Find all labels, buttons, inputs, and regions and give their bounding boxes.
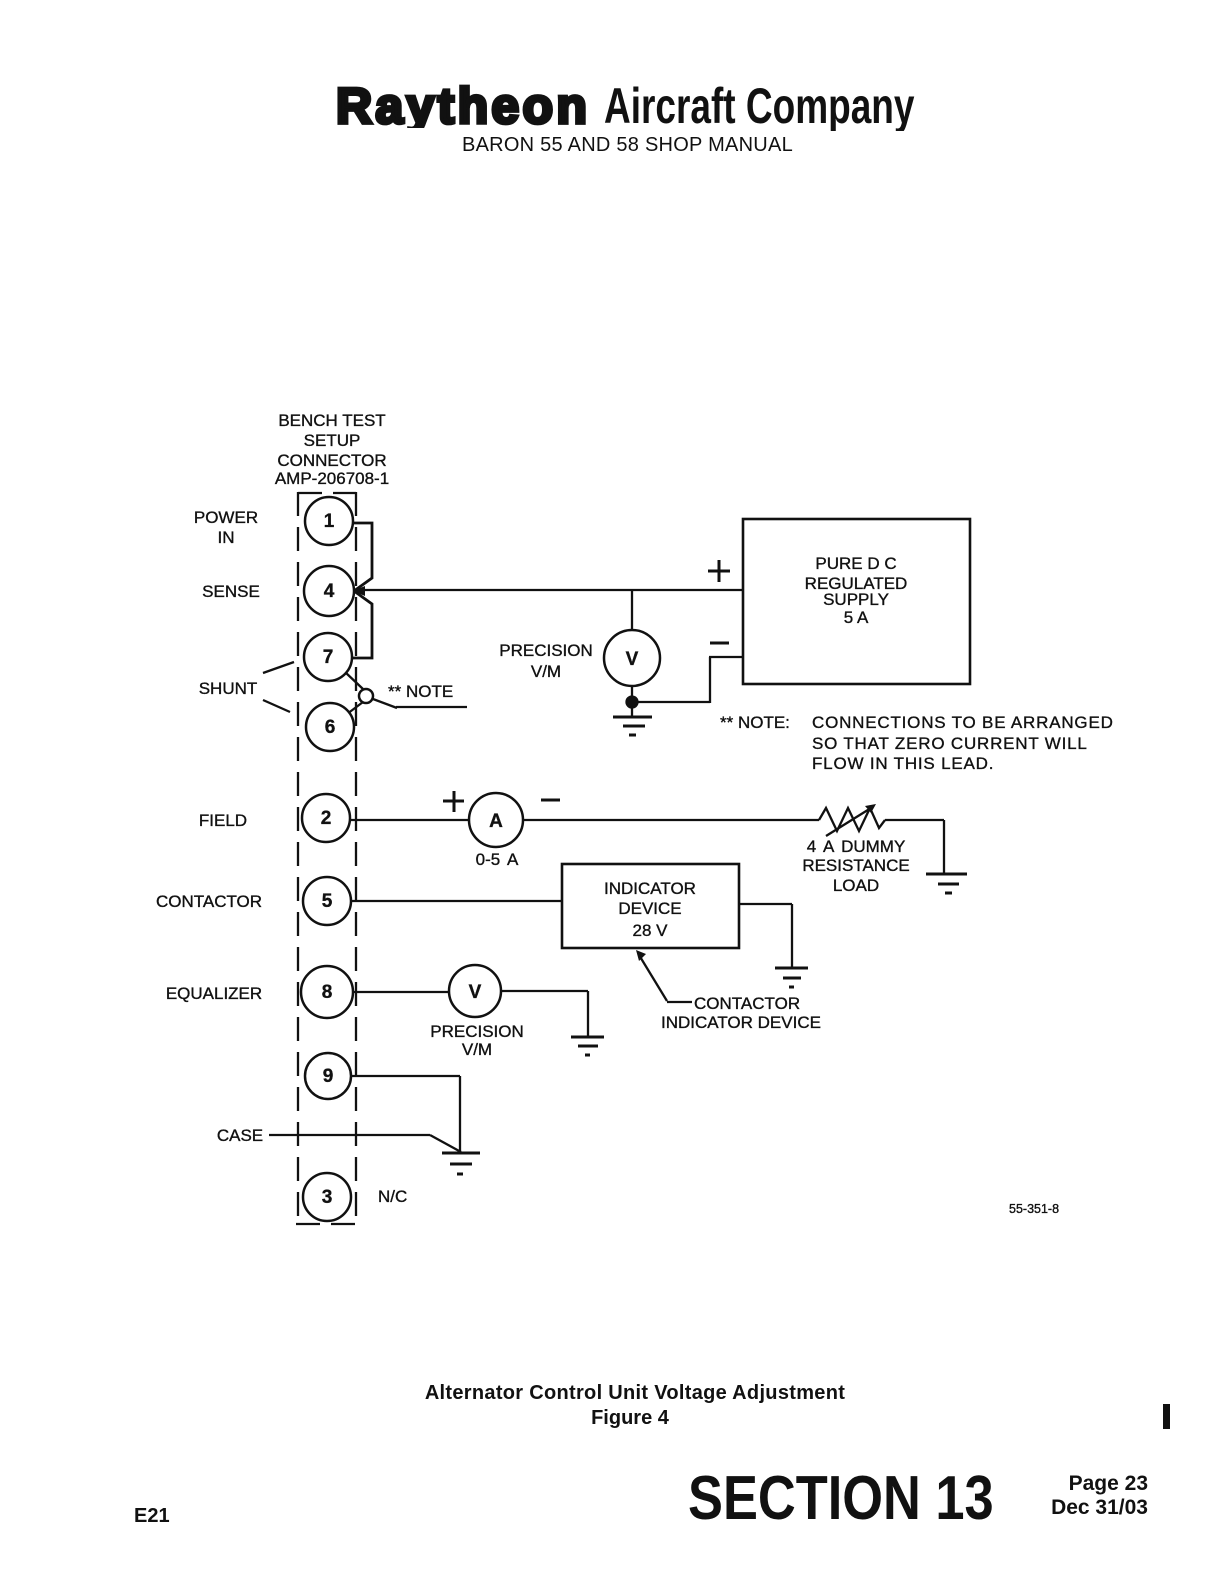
svg-text:POWER: POWER [194,508,258,527]
svg-text:SENSE: SENSE [202,582,260,601]
svg-text:** NOTE:: ** NOTE: [720,713,790,732]
svg-text:LOAD: LOAD [833,876,879,895]
svg-text:RESISTANCE: RESISTANCE [802,856,909,875]
svg-text:CONTACTOR: CONTACTOR [156,892,262,911]
svg-text:SETUP: SETUP [304,431,361,450]
svg-text:0-5 A: 0-5 A [476,850,519,869]
svg-text:2: 2 [321,808,332,829]
svg-text:55-351-8: 55-351-8 [1009,1202,1059,1216]
svg-text:V: V [469,982,482,1003]
svg-text:V/M: V/M [531,662,561,681]
svg-text:9: 9 [323,1066,334,1087]
svg-text:SUPPLY: SUPPLY [823,590,889,609]
svg-text:CONNECTIONS TO BE ARRANGED: CONNECTIONS TO BE ARRANGED [812,713,1114,732]
svg-text:6: 6 [325,717,336,738]
svg-text:1: 1 [324,511,335,532]
svg-text:AMP-206708-1: AMP-206708-1 [275,469,389,488]
svg-text:V/M: V/M [462,1040,492,1059]
svg-text:PURE D C: PURE D C [815,554,896,573]
svg-text:** NOTE: ** NOTE [388,682,453,701]
svg-text:SHUNT: SHUNT [199,679,258,698]
svg-text:A: A [489,811,503,832]
svg-text:N/C: N/C [378,1187,407,1206]
svg-text:SO THAT ZERO CURRENT WILL: SO THAT ZERO CURRENT WILL [812,734,1088,753]
svg-text:PRECISION: PRECISION [499,641,593,660]
svg-text:7: 7 [323,647,334,668]
svg-text:PRECISION: PRECISION [430,1022,524,1041]
svg-text:INDICATOR DEVICE: INDICATOR DEVICE [661,1013,821,1032]
svg-text:EQUALIZER: EQUALIZER [166,984,262,1003]
svg-text:28 V: 28 V [633,921,669,940]
svg-text:V: V [626,649,639,670]
svg-text:INDICATOR: INDICATOR [604,879,696,898]
svg-text:CASE: CASE [217,1126,263,1145]
svg-text:8: 8 [322,982,333,1003]
svg-text:BENCH TEST: BENCH TEST [278,411,385,430]
svg-text:FIELD: FIELD [199,811,247,830]
svg-text:3: 3 [322,1187,333,1208]
svg-text:5: 5 [322,891,333,912]
svg-text:4: 4 [324,581,335,602]
svg-text:4 A DUMMY: 4 A DUMMY [807,837,906,856]
svg-text:IN: IN [218,528,235,547]
svg-text:5 A: 5 A [844,608,869,627]
svg-text:CONNECTOR: CONNECTOR [277,451,386,470]
svg-text:DEVICE: DEVICE [618,899,681,918]
svg-text:FLOW IN THIS LEAD.: FLOW IN THIS LEAD. [812,754,994,773]
svg-text:CONTACTOR: CONTACTOR [694,994,800,1013]
